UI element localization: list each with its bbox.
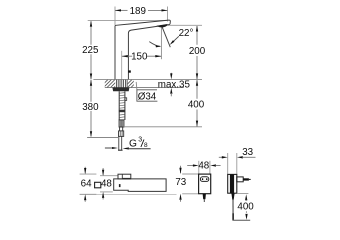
svg-text:8: 8 [144,142,148,149]
svg-text:225: 225 [82,45,99,56]
svg-text:380: 380 [82,102,99,113]
svg-text:400: 400 [237,202,254,213]
svg-text:48: 48 [198,161,209,172]
svg-text:73: 73 [175,177,186,188]
svg-text:max.35: max.35 [158,80,191,91]
svg-text:400: 400 [188,100,205,111]
svg-text:48: 48 [101,179,112,190]
svg-text:22°: 22° [179,28,194,39]
svg-text:200: 200 [189,46,206,57]
svg-text:3: 3 [138,137,142,144]
svg-text:189: 189 [130,6,146,17]
svg-text:Ø34: Ø34 [138,92,157,103]
svg-text:G: G [129,138,137,149]
svg-text:33: 33 [242,147,253,158]
svg-text:64: 64 [81,179,92,190]
svg-text:150: 150 [131,52,148,63]
